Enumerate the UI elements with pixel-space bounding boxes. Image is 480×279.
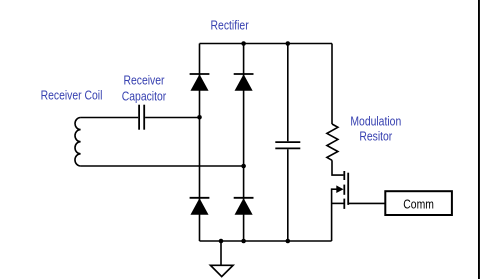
- page border right edge: [478, 0, 480, 279]
- wire: left bridge leg: [199, 44, 201, 242]
- wire: top rectifier rail: [200, 43, 333, 45]
- wire: resistor bottom to MOSFET drain: [332, 160, 343, 175]
- svg-text:Receiver: Receiver: [123, 73, 164, 87]
- diode D1 upper left: [190, 74, 210, 90]
- wire: bottom ground rail: [200, 240, 332, 242]
- svg-text:Receiver Coil: Receiver Coil: [41, 88, 103, 102]
- transistor Q1 N-channel MOSFET: [332, 171, 349, 209]
- wire: right bridge leg: [243, 44, 245, 242]
- diode D3 lower left: [190, 198, 210, 214]
- svg-text:Resitor: Resitor: [359, 129, 392, 143]
- wire: ground stem: [220, 241, 222, 265]
- capacitor C1 receiver capacitor: [139, 105, 144, 130]
- capacitor C2 filter capacitor: [275, 142, 300, 148]
- svg-text:Capacitor: Capacitor: [122, 89, 167, 103]
- svg-text:Modulation: Modulation: [350, 114, 401, 128]
- resistor R1 modulation resistor: [327, 124, 338, 160]
- wire: resistor upper leg from top rail: [331, 44, 333, 125]
- label: Modulation Resitor: [350, 114, 401, 143]
- wire: MOSFET gate to Comm box: [348, 202, 385, 204]
- node: ground rail junction at ground symbol: [219, 239, 224, 244]
- label: Receiver Coil: [41, 88, 103, 102]
- svg-text:Comm: Comm: [403, 197, 434, 211]
- node: top rail junction at filter capacitor: [286, 41, 291, 46]
- wire: MOSFET source and body down to ground rail: [331, 188, 333, 241]
- wire: coil top to receiver capacitor: [81, 117, 139, 119]
- label: Rectifier: [211, 19, 249, 33]
- node: AC input junction on right leg: [241, 164, 246, 169]
- Comm box U1: [385, 191, 452, 215]
- ground symbol: [211, 265, 234, 276]
- diode D4 lower right: [234, 198, 254, 214]
- node: ground rail junction at right leg: [241, 239, 246, 244]
- label: Receiver Capacitor: [122, 73, 167, 103]
- svg-text:Rectifier: Rectifier: [211, 19, 249, 33]
- node: AC input junction on left leg: [197, 115, 202, 120]
- node: bottom rail junction at filter capacitor: [286, 239, 291, 244]
- wire: receiver capacitor to left bridge leg: [145, 117, 199, 119]
- node: top rail junction at right leg: [241, 41, 246, 46]
- inductor L1 receiver coil: [75, 118, 81, 167]
- label: Comm: [403, 197, 434, 211]
- wire: filter capacitor lower leg: [287, 149, 289, 241]
- wire: coil bottom to right bridge leg: [81, 165, 244, 167]
- diode D2 upper right: [234, 74, 254, 90]
- wire: filter capacitor upper leg: [287, 44, 289, 142]
